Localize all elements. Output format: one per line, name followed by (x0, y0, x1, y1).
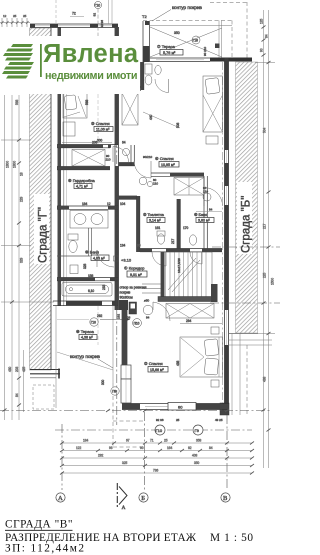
wall bedroom3 / closet (57, 141, 126, 148)
svg-text:② Спалня: ② Спалня (144, 361, 163, 366)
svg-text:10,95 м²: 10,95 м² (161, 163, 175, 167)
svg-text:4,38 м²: 4,38 м² (81, 336, 93, 340)
walls around toilet/bath rooms y196-250 (119, 176, 223, 266)
kitchen counter bottom of left unit (62, 274, 112, 296)
svg-text:6,10: 6,10 (88, 289, 94, 293)
WC top of right unit (119, 62, 169, 93)
corridor fixtures right unit (139, 177, 158, 186)
svg-text:покрив: покрив (120, 291, 131, 295)
bedroom 3 bed (left top) (63, 94, 89, 137)
svg-text:134: 134 (120, 244, 126, 248)
svg-text:В: В (223, 495, 228, 502)
svg-text:84: 84 (146, 316, 150, 320)
svg-text:1300: 1300 (6, 161, 10, 168)
svg-text:217: 217 (171, 238, 175, 244)
svg-text:9,01 м²: 9,01 м² (130, 273, 142, 277)
svg-text:③ Спалня: ③ Спалня (91, 121, 110, 126)
svg-text:122: 122 (76, 446, 82, 450)
wall y173 right part + wardrobe W2 (151, 173, 204, 176)
bed bedroom 2 (180, 327, 223, 387)
bedroom 2 wardrobe (166, 304, 214, 319)
svg-text:284: 284 (186, 319, 192, 323)
bottom dimension chain stack (60, 439, 254, 475)
svg-text:1500: 1500 (271, 278, 275, 285)
closet wardrobe W1 (72, 150, 105, 167)
section cut marker (117, 483, 127, 511)
svg-text:А: А (58, 495, 63, 502)
logo group (0, 36, 140, 94)
right vertical dimension chain (255, 10, 275, 468)
svg-text:96: 96 (137, 244, 141, 248)
roof contour label bottom (70, 354, 143, 447)
svg-text:3,14 м²: 3,14 м² (149, 219, 161, 223)
svg-text:225: 225 (263, 272, 267, 278)
svg-text:недвижими имоти: недвижими имоти (45, 70, 138, 82)
dashed stub below left hatch (33, 385, 54, 409)
svg-text:425: 425 (22, 366, 26, 372)
svg-text:90: 90 (260, 48, 264, 52)
svg-text:Т2: Т2 (142, 14, 147, 19)
logo divider (40, 44, 42, 77)
svg-text:92: 92 (93, 13, 97, 17)
svg-text:104: 104 (120, 202, 126, 206)
wall lines right of left hatch (58, 27, 62, 306)
svg-text:25: 25 (13, 14, 17, 18)
svg-text:Б: Б (141, 495, 145, 502)
svg-text:⑩ Тераса: ⑩ Тераса (76, 329, 95, 334)
svg-text:184: 184 (83, 439, 89, 443)
svg-text:206: 206 (92, 141, 98, 145)
svg-text:④ Спалня: ④ Спалня (155, 156, 174, 161)
top-left horizontal dimension chain (0, 14, 30, 27)
svg-text:12: 12 (3, 14, 7, 18)
svg-text:25: 25 (23, 14, 27, 18)
svg-text:84: 84 (265, 34, 269, 38)
svg-text:25: 25 (176, 418, 180, 422)
svg-text:300: 300 (101, 379, 105, 385)
toilet left unit (68, 234, 78, 274)
left unit outer-left wall fill (53, 24, 58, 28)
wall piece y163 and corridor door (119, 145, 135, 166)
central wall between units (115, 27, 119, 310)
bath vanity with two sinks (70, 211, 108, 229)
bedroom 2 label (144, 360, 180, 372)
svg-text:15,66 м²: 15,66 м² (150, 368, 164, 372)
svg-text:5,76 м²: 5,76 м² (163, 51, 176, 55)
Сграда Б label gap (237, 182, 253, 254)
svg-text:210: 210 (106, 158, 111, 162)
column bubbles А Б В (56, 493, 230, 502)
wall under wardrobe (57, 167, 110, 170)
bottom wall of left unit (terrace edge) (53, 301, 118, 306)
svg-text:П9: П9 (112, 390, 116, 394)
left vertical dimension chain (1, 95, 54, 420)
svg-text:430: 430 (8, 366, 12, 372)
closet label (68, 178, 96, 189)
bath door arc left unit (57, 228, 118, 281)
svg-text:62: 62 (188, 446, 192, 450)
svg-text:18: 18 (20, 172, 24, 176)
stair bottom beam (158, 284, 222, 324)
svg-text:П10: П10 (134, 322, 140, 326)
svg-text:170: 170 (183, 226, 189, 230)
svg-text:⑧ Гардеробна: ⑧ Гардеробна (68, 178, 96, 183)
svg-text:⑦ Тераса: ⑦ Тераса (157, 44, 176, 49)
grid bubbles Г10 / Г9 on line y430 (155, 418, 223, 435)
svg-text:125: 125 (260, 18, 264, 24)
svg-text:Г10: Г10 (95, 4, 101, 8)
svg-text:438: 438 (176, 360, 180, 366)
right exterior wall of the unit (220, 58, 229, 415)
svg-text:1300: 1300 (13, 161, 17, 168)
bedroom 4 interior dims (143, 112, 180, 128)
svg-text:504: 504 (263, 127, 267, 133)
corridor sink + door arc (left unit) (106, 147, 130, 163)
grid bubble Г10 top (70, 1, 104, 345)
svg-text:+3.10: +3.10 (121, 258, 132, 263)
bedroom 4 wardrobe (top, against central wall) (122, 93, 138, 125)
svg-text:329: 329 (20, 257, 24, 263)
svg-text:49 25: 49 25 (215, 418, 223, 422)
svg-text:96: 96 (109, 446, 113, 450)
svg-text:184: 184 (82, 202, 88, 206)
toilet room label + fixture (143, 213, 165, 244)
svg-text:11,06 м²: 11,06 м² (96, 128, 110, 132)
svg-text:90 210: 90 210 (203, 46, 207, 56)
bed bedroom 4 (right wall) (203, 76, 223, 144)
svg-text:⑥ Баня: ⑥ Баня (194, 213, 207, 217)
svg-text:⑤ Тоалетна: ⑤ Тоалетна (143, 213, 165, 217)
svg-text:203: 203 (15, 366, 19, 372)
bedroom 4 door arc (134, 155, 153, 178)
bath label left unit (83, 250, 109, 291)
svg-text:контур покрив: контур покрив (172, 5, 203, 10)
svg-text:ЗП: 112,44м2: ЗП: 112,44м2 (5, 543, 84, 555)
left hatch bottom corner thick wall (30, 369, 60, 371)
svg-text:Сграда "Б": Сграда "Б" (241, 196, 253, 253)
bottom wall bedroom 2 (122, 403, 229, 411)
svg-text:90/210: 90/210 (143, 155, 153, 159)
svg-text:СГРАДА "В": СГРАДА "В" (5, 519, 73, 531)
bottom titles (5, 519, 253, 555)
svg-text:Г16: Г16 (193, 39, 198, 43)
roof contour label + dashes top (142, 2, 247, 58)
svg-text:① Коридор: ① Коридор (124, 266, 145, 271)
svg-text:292: 292 (97, 314, 103, 318)
svg-text:90: 90 (140, 446, 144, 450)
svg-text:4,71 м²: 4,71 м² (76, 185, 88, 189)
svg-text:568: 568 (15, 99, 19, 105)
svg-text:358: 358 (196, 439, 202, 443)
svg-text:26: 26 (127, 316, 131, 320)
terrace bottom-left area (56, 306, 130, 408)
svg-text:210: 210 (153, 182, 158, 186)
svg-text:328: 328 (83, 263, 87, 269)
logo white backing (0, 36, 140, 94)
svg-text:408: 408 (192, 454, 198, 458)
svg-text:161: 161 (155, 226, 161, 230)
top wall of right building (thick) (150, 58, 252, 62)
terrace bottom right (228, 334, 272, 416)
svg-text:300: 300 (97, 139, 103, 143)
svg-text:контур покрив: контур покрив (70, 354, 101, 359)
svg-text:84: 84 (15, 393, 19, 397)
svg-text:92 38: 92 38 (100, 20, 104, 28)
svg-text:Г10: Г10 (156, 428, 163, 433)
svg-text:71: 71 (150, 439, 154, 443)
svg-text:80: 80 (178, 405, 183, 410)
top exterior wall of left unit (30, 0, 118, 28)
hallway fixtures near stairs (117, 299, 171, 328)
svg-text:164: 164 (167, 446, 173, 450)
svg-text:350: 350 (194, 461, 200, 465)
terrace top (7 Тераса) (143, 3, 248, 63)
svg-text:67: 67 (126, 439, 130, 443)
left neighbour party wall hatched band (Сграда Г) (30, 27, 67, 409)
dash-dot grid lines (0, 27, 280, 490)
svg-text:Сграда "Г": Сграда "Г" (38, 207, 50, 263)
svg-text:М 1 : 50: М 1 : 50 (210, 532, 253, 544)
svg-text:736: 736 (153, 469, 159, 473)
bath room right label + fixtures (171, 186, 223, 245)
right neighbour party wall hatched band (Сграда Б) (236, 62, 258, 333)
svg-text:64: 64 (122, 141, 126, 145)
svg-text:325: 325 (122, 461, 128, 465)
Сграда Г label gap (34, 194, 50, 264)
svg-text:84: 84 (209, 446, 213, 450)
stairs (142, 252, 212, 300)
svg-text:156: 156 (88, 274, 94, 278)
svg-text:438: 438 (263, 376, 267, 382)
logo mark bars (2, 44, 34, 79)
svg-text:12: 12 (107, 202, 111, 206)
svg-text:292: 292 (98, 454, 104, 458)
svg-text:16x17,5/28: 16x17,5/28 (177, 258, 181, 273)
svg-text:229: 229 (20, 196, 24, 202)
svg-text:568: 568 (85, 99, 89, 105)
svg-text:84: 84 (209, 208, 213, 212)
svg-text:90х80см: 90х80см (120, 296, 134, 300)
svg-text:92 38: 92 38 (156, 418, 164, 422)
svg-text:ø50: ø50 (144, 299, 150, 303)
svg-text:Явлена: Явлена (43, 40, 139, 68)
wall y206 left unit (57, 202, 126, 209)
svg-text:25: 25 (164, 439, 168, 443)
svg-text:217: 217 (263, 223, 267, 229)
bedroom 3 label (62, 121, 113, 143)
svg-text:350: 350 (174, 31, 180, 35)
svg-text:Г10: Г10 (91, 321, 96, 325)
bedroom 4 label (155, 156, 179, 167)
svg-text:3,80 м²: 3,80 м² (198, 219, 210, 223)
svg-text:72: 72 (72, 12, 76, 16)
svg-text:А: А (122, 505, 126, 511)
svg-text:отвор за ревизия: отвор за ревизия (120, 286, 147, 290)
corridor label (114, 244, 148, 305)
bedroom 2 left wall with window strip (119, 300, 131, 403)
